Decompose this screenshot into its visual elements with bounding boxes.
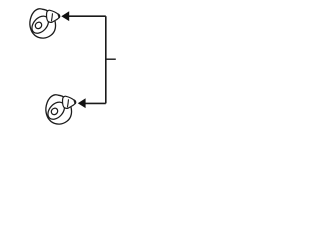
- wire: bottom horizontal leader: [80, 102, 106, 104]
- wire: tick stub on bracket: [106, 58, 116, 60]
- arrowhead to bolt B2: [78, 98, 86, 108]
- bolt B1 (top left): [29, 9, 60, 38]
- wire: vertical bracket line: [105, 16, 107, 103]
- arrowhead to bolt B1: [61, 11, 69, 21]
- wire: top horizontal leader: [64, 15, 106, 17]
- bolt B2 (bottom): [45, 95, 76, 124]
